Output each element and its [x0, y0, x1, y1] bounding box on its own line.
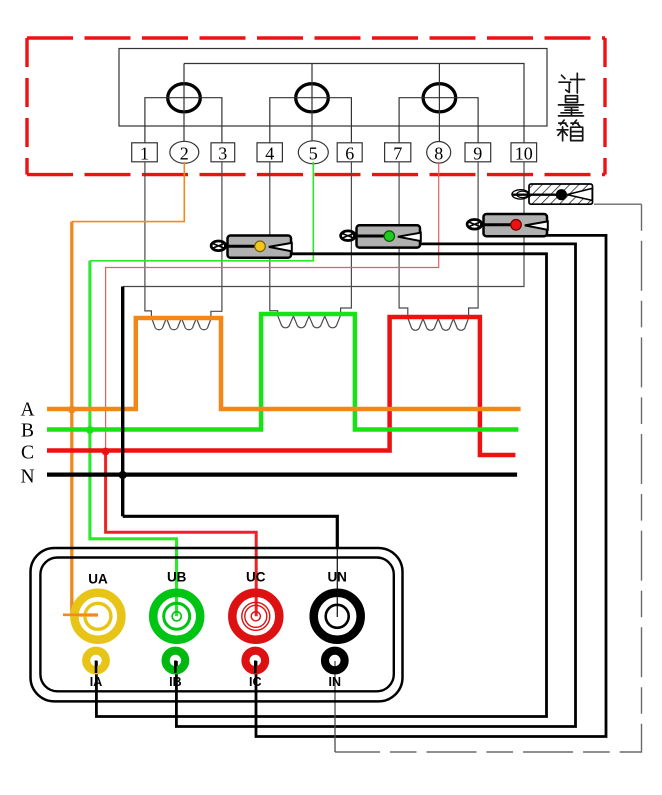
CT1 secondary coil [151, 318, 211, 330]
svg-text:8: 8 [434, 144, 443, 164]
phase A bus with CT1 primary loop [47, 318, 521, 409]
svg-text:IB: IB [169, 675, 182, 689]
tester device body [31, 548, 403, 701]
svg-text:UC: UC [246, 570, 266, 585]
svg-text:IC: IC [249, 675, 262, 689]
terminal 7 [385, 143, 411, 164]
svg-text:IA: IA [90, 675, 103, 689]
svg-text:UB: UB [167, 570, 187, 585]
wire: terminal 9 to CT3 coil right [469, 162, 479, 318]
wire: current path U3 to terminals 7 and 9 [399, 98, 478, 143]
terminal IA [86, 651, 106, 689]
junction node A [68, 406, 76, 414]
junction node C [102, 448, 110, 456]
wire: terminal 4 to CT2 coil left [270, 162, 278, 316]
meter element U2 (circle) [296, 84, 329, 112]
terminal UN [314, 570, 361, 640]
phase C bus with CT3 primary loop [47, 317, 515, 455]
wire: current path U2 to terminals 4 and 6 [270, 98, 352, 143]
svg-text:7: 7 [393, 144, 402, 164]
wire: terminal 7 to CT3 coil left [399, 162, 408, 318]
voltage wire phase A: terminal 2 to bus A to UA [72, 162, 185, 222]
terminal UA [63, 572, 121, 640]
wire: voltage drop terminal 2 through U1 [183, 64, 185, 142]
terminal 5 [298, 141, 328, 164]
phase B bus with CT2 primary loop [47, 314, 518, 430]
svg-text:2: 2 [180, 144, 189, 164]
wire: current path U1 to terminals 1 and 3 [145, 98, 222, 143]
terminal UB [153, 570, 200, 640]
clip A (yellow test clip) [211, 236, 292, 258]
voltage wire phase B: terminal 5 to bus B to UB [90, 162, 313, 261]
svg-text:B: B [21, 421, 34, 442]
svg-text:N: N [20, 467, 34, 488]
voltage bus inside meter (to terminal 10) [184, 64, 524, 143]
meter body [119, 49, 547, 127]
junction node N [119, 471, 127, 479]
svg-text:IN: IN [329, 675, 342, 689]
svg-text:C: C [21, 443, 34, 464]
clip N (hatched neutral clip) [512, 184, 593, 204]
meter element U3 (circle) [423, 84, 456, 112]
svg-text:5: 5 [309, 144, 318, 164]
wire: terminal 6 to CT2 coil right [341, 162, 352, 316]
terminal 3 [211, 143, 235, 164]
svg-text:UN: UN [327, 570, 347, 585]
terminal 1 [132, 143, 158, 164]
svg-text:9: 9 [473, 144, 482, 164]
wire: terminal 10 to neutral drop [123, 162, 524, 287]
current lead IC: clip C to right riser to IC terminal [256, 235, 606, 736]
terminal 8 [427, 142, 451, 164]
terminal 6 [337, 143, 362, 164]
terminal UC [232, 570, 279, 640]
terminal 10 [511, 143, 537, 164]
svg-text:3: 3 [218, 144, 227, 164]
junction node B [86, 426, 94, 434]
wire: terminal 3 to CT1 coil right [211, 162, 222, 318]
clip C (red test clip) [467, 214, 548, 236]
terminal IB [166, 651, 186, 689]
svg-text:1: 1 [140, 144, 149, 164]
neutral wire: terminal 10 drop to bus N to UN [121, 287, 124, 517]
svg-text:10: 10 [515, 144, 533, 164]
svg-text:UA: UA [88, 572, 108, 587]
terminal 9 [465, 143, 491, 164]
svg-text:4: 4 [265, 144, 274, 164]
svg-text:A: A [20, 400, 34, 421]
voltage wire phase C: terminal 8 to bus C to UC [106, 162, 439, 451]
wire: voltage drop terminal 5 through U2 [311, 64, 313, 142]
metering box enclosure (red dashed) [27, 38, 605, 175]
terminal IN [325, 651, 345, 689]
CT3 secondary coil [408, 318, 469, 330]
wire: terminal 1 to CT1 coil left [145, 162, 152, 318]
svg-text:6: 6 [345, 144, 354, 164]
neutral bus N [47, 472, 517, 476]
terminal 4 [257, 143, 282, 164]
label 计量箱 [557, 73, 584, 141]
current lead IA: clip A to right riser to IA terminal [96, 254, 546, 717]
clip B (green test clip) [341, 225, 421, 247]
wire: voltage drop terminal 8 through U3 [438, 64, 440, 142]
CT2 secondary coil [278, 315, 341, 327]
terminal IC [246, 651, 266, 689]
terminal 2 [170, 141, 199, 163]
neutral lead IN (dashed) [594, 203, 642, 205]
current lead IB: clip B to right riser to IB terminal [176, 244, 575, 727]
meter element U1 (circle) [168, 84, 201, 112]
